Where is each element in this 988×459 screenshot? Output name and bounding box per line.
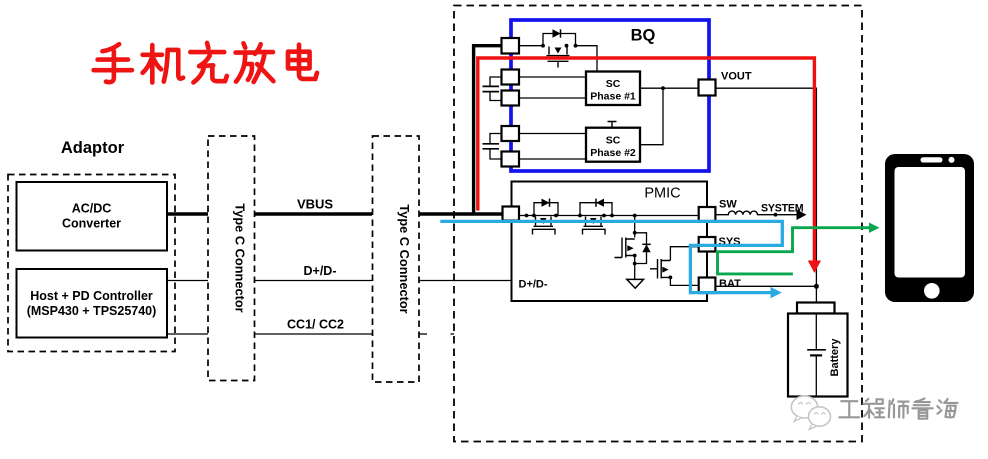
PMIC block box — [512, 182, 708, 302]
wire D+/D- segment 2 — [254, 280, 372, 282]
label CC1/ CC2 — [287, 318, 344, 332]
MOSFET Q5 symbol — [650, 259, 670, 279]
pin square VOUT — [699, 80, 716, 96]
wire D+/D- segment 1 — [167, 280, 209, 282]
node dot battery junction — [814, 284, 819, 289]
red wire VBUS to battery (charge path) — [478, 58, 815, 261]
label VOUT — [721, 71, 752, 83]
wire Q4 source to ground — [634, 256, 636, 280]
node dot SYSTEM — [774, 213, 778, 217]
wire VOUT to battery junction (black) — [716, 88, 817, 302]
pin square BQ in B1 — [502, 126, 520, 141]
title text 手机充放电 (red) — [94, 43, 317, 83]
body diode of Q4 (loop right, pointing up) — [635, 233, 651, 264]
MOSFET Q1 symbol — [547, 47, 570, 68]
svg-text:Type C Connector: Type C Connector — [397, 204, 412, 313]
svg-text:VBUS: VBUS — [297, 197, 333, 212]
MOSFET Q2 symbol — [533, 217, 556, 235]
green wire BAT branch — [718, 252, 793, 274]
watermark logo (chat bubbles) — [791, 396, 830, 430]
block SC Phase #2 — [586, 128, 640, 162]
svg-text:SYSTEM: SYSTEM — [761, 203, 804, 215]
node dots on Q1 wire — [541, 44, 577, 48]
diode of Q3 (pointing left) — [596, 199, 604, 207]
wire PMIC main rail — [519, 215, 699, 217]
label Adaptor — [61, 139, 125, 157]
pin square BQ input — [502, 38, 520, 54]
svg-text:SC: SC — [606, 135, 621, 147]
svg-text:BQ: BQ — [631, 27, 656, 45]
green wire SYS to phone — [716, 228, 870, 252]
cyan arrowhead right — [771, 287, 782, 298]
Type C Connector box 2 (dashed) — [373, 136, 420, 382]
svg-text:Battery: Battery — [829, 338, 841, 377]
block Host + PD Controller — [17, 269, 168, 338]
svg-text:Adaptor: Adaptor — [61, 139, 125, 157]
BQ charger block (blue box) — [511, 20, 709, 171]
Type C Connector box 1 (dashed) — [208, 136, 255, 381]
inductor L1 — [715, 211, 797, 215]
svg-text:D+/D-: D+/D- — [304, 264, 337, 278]
wire Q1 to SC Phase 1 — [576, 46, 598, 72]
gate stub above Phase2 — [608, 122, 617, 128]
wire VBUS segment 1 (thick) — [167, 212, 209, 215]
label VBUS — [297, 197, 333, 212]
wire Phase2 output junction — [640, 88, 663, 145]
flying capacitor C1 — [483, 77, 503, 101]
wire Q5 source to BAT — [670, 277, 699, 285]
label BQ — [631, 27, 656, 45]
diode of Q1 — [553, 29, 561, 37]
flying capacitor C2 — [483, 134, 503, 160]
pin square BQ in A1 — [502, 70, 520, 85]
wire CC1/CC2 stub right of connector — [419, 333, 454, 335]
svg-text:VOUT: VOUT — [721, 71, 752, 83]
label D+/D- inside PMIC — [519, 279, 548, 291]
wire A2 to Phase1 — [519, 97, 586, 99]
svg-text:D+/D-: D+/D- — [519, 279, 548, 291]
green arrowhead right — [869, 223, 880, 233]
wire B2 to Phase2 — [519, 158, 586, 160]
svg-text:CC1/ CC2: CC1/ CC2 — [287, 318, 344, 332]
MOSFET Q4 symbol — [615, 238, 635, 258]
wire thick input to BQ (from VBUS) — [474, 46, 502, 215]
node dot Q4 drain — [633, 231, 637, 235]
label Battery (rotated) — [829, 338, 841, 377]
svg-text:Host + PD Controller: Host + PD Controller — [30, 289, 153, 303]
MOSFET Q3 symbol — [583, 217, 606, 235]
wire BQ input to switch — [519, 45, 543, 47]
wire BAT to battery junction — [715, 285, 816, 287]
svg-text:Converter: Converter — [62, 217, 121, 231]
ground symbol — [627, 279, 644, 288]
svg-text:SC: SC — [606, 78, 621, 90]
node dot Phase outputs — [661, 86, 665, 90]
switch Q2 body-diode loop — [534, 203, 558, 216]
pin square SYS — [699, 237, 716, 252]
label SYS — [719, 236, 741, 248]
node dot Q5 source — [669, 276, 673, 280]
phone icon — [885, 154, 974, 302]
label SYSTEM — [761, 203, 804, 215]
label D+/D- — [304, 264, 337, 278]
battery terminal tab — [797, 303, 835, 314]
svg-text:BAT: BAT — [719, 278, 741, 290]
label PMIC — [644, 186, 680, 202]
pin square BAT — [699, 278, 716, 294]
wire D+/D- segment 3 (into PMIC) — [419, 280, 512, 282]
block SC Phase #1 — [586, 72, 640, 106]
cyan wire VBUS to SYS and BAT out (data path) — [440, 221, 782, 292]
red arrowhead down — [808, 261, 821, 274]
battery body — [788, 314, 848, 397]
load switch Q1 body-diode loop — [543, 34, 576, 46]
pin square BQ in B2 — [502, 152, 520, 167]
outer system dashed box — [454, 6, 862, 442]
svg-text:SW: SW — [719, 199, 737, 211]
svg-text:Type C Connector: Type C Connector — [233, 203, 248, 312]
svg-text:Phase #1: Phase #1 — [590, 91, 636, 103]
adaptor dashed box — [8, 175, 175, 352]
wire CC1/CC2 segment 1 — [167, 333, 209, 335]
pin square SW — [699, 207, 716, 221]
diode of Q2 (pointing right) — [542, 199, 550, 207]
watermark text 工程师看海 (gray) — [839, 398, 957, 418]
pin square BQ in A2 — [502, 91, 520, 106]
node dots on PMIC rail — [525, 214, 637, 218]
wire VBUS segment 3 (thick, into PMIC) — [419, 212, 502, 215]
SYSTEM arrowhead — [797, 209, 807, 220]
wire B1 to Phase2 — [519, 133, 586, 135]
wire CC1/CC2 segment 2 — [254, 333, 372, 335]
block AC/DC Converter — [17, 182, 168, 251]
label BAT — [719, 278, 741, 290]
node dots Q4 source — [633, 254, 637, 266]
wire rail down to Q4 — [634, 216, 636, 238]
wire VBUS segment 2 (thick, labeled) — [254, 212, 372, 215]
wire A1 to Phase1 — [519, 76, 586, 78]
wire Phase1 output to VOUT — [640, 87, 699, 89]
label SW — [719, 199, 737, 211]
svg-text:AC/DC: AC/DC — [72, 202, 112, 216]
switch Q3 body-diode loop — [580, 203, 612, 216]
wire Q5 drain to SYS — [670, 247, 699, 261]
svg-text:Phase #2: Phase #2 — [590, 147, 636, 159]
svg-text:(MSP430 + TPS25740): (MSP430 + TPS25740) — [27, 304, 157, 318]
pin square PMIC VBUS input — [503, 207, 520, 221]
battery cell symbol — [807, 314, 826, 397]
svg-text:PMIC: PMIC — [644, 186, 680, 202]
